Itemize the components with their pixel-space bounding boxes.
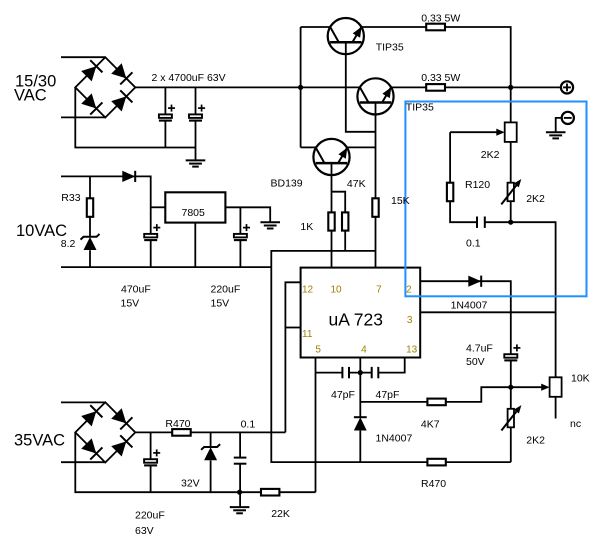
capacitor 220uF 15V	[234, 234, 247, 238]
wire	[510, 361, 512, 387]
svg-text:15V: 15V	[211, 298, 230, 310]
bridge rectifier B1	[75, 57, 135, 117]
ground	[230, 506, 250, 508]
wire	[331, 163, 333, 212]
wire	[61, 461, 105, 463]
svg-text:4.7uF: 4.7uF	[466, 343, 493, 355]
resistor 0.33 5W (top)	[426, 24, 445, 31]
potentiometer 10K	[550, 377, 562, 397]
svg-text:uA 723: uA 723	[329, 310, 384, 330]
wire	[361, 26, 426, 28]
wire	[210, 460, 212, 492]
svg-text:47K: 47K	[347, 178, 366, 190]
svg-text:13: 13	[406, 344, 418, 355]
svg-text:R33: R33	[61, 192, 80, 204]
svg-text:2 x 4700uF 63V: 2 x 4700uF 63V	[152, 72, 226, 84]
wire	[61, 401, 105, 403]
node selection box (blue)	[405, 102, 586, 297]
terminal - output	[562, 112, 574, 124]
wire	[450, 131, 498, 133]
wiper arrow	[496, 129, 504, 136]
wire	[195, 87, 197, 114]
svg-text:50V: 50V	[466, 356, 485, 368]
wire	[315, 358, 317, 493]
wire	[75, 432, 239, 492]
junction	[358, 370, 363, 375]
ground	[186, 159, 206, 161]
wire	[556, 118, 562, 132]
capacitor 47pF (left)	[341, 367, 343, 378]
svg-text:7: 7	[376, 285, 382, 296]
resistor 47K	[342, 212, 348, 230]
wire	[300, 27, 302, 147]
ground	[546, 131, 566, 133]
svg-text:10K: 10K	[571, 373, 590, 385]
wiper arrow	[541, 384, 549, 391]
wire	[378, 358, 404, 373]
potentiometer 2K2 (top)	[505, 122, 517, 141]
svg-text:470uF: 470uF	[121, 283, 151, 295]
trimmer 2K2 (right)	[508, 183, 514, 202]
wire	[360, 387, 511, 402]
junction	[508, 385, 513, 390]
wire	[61, 116, 105, 118]
resistor R120	[447, 183, 453, 202]
svg-text:15V: 15V	[121, 298, 140, 310]
wire	[359, 358, 361, 418]
wire	[485, 222, 556, 377]
svg-text:4: 4	[361, 344, 367, 355]
zener 32V	[201, 444, 220, 450]
wire	[332, 192, 346, 213]
wire	[510, 312, 512, 354]
wire	[61, 266, 271, 268]
capacitor 47pF (right)	[371, 367, 373, 378]
svg-text:12: 12	[302, 285, 314, 296]
svg-text:2: 2	[406, 284, 412, 295]
resistor 15K	[372, 198, 378, 217]
svg-text:VAC: VAC	[14, 87, 47, 105]
wire	[195, 121, 197, 160]
resistor R470 (bottom)	[427, 459, 445, 466]
wire	[555, 397, 557, 419]
IC U1 uA 723	[301, 268, 421, 358]
zener 8.2	[81, 234, 100, 240]
svg-text:7805: 7805	[182, 207, 206, 219]
svg-text:2K2: 2K2	[481, 149, 500, 161]
svg-text:15K: 15K	[391, 195, 410, 207]
transistor Q1 TIP35	[328, 18, 364, 54]
svg-text:2K2: 2K2	[526, 193, 545, 205]
svg-text:47pF: 47pF	[376, 389, 400, 401]
resistor R470 (35VAC rail)	[172, 429, 191, 436]
junction	[508, 85, 513, 90]
trimmer 2K2 (bottom)	[508, 409, 514, 428]
wire	[331, 231, 333, 268]
wire	[75, 87, 195, 147]
wire	[271, 251, 511, 462]
svg-text:63V: 63V	[135, 525, 154, 537]
wire	[240, 491, 316, 493]
svg-text:220uF: 220uF	[135, 510, 165, 522]
resistor 22K	[261, 489, 279, 496]
wire	[420, 311, 555, 313]
wire	[61, 56, 105, 58]
wire	[239, 432, 241, 457]
diode 1N4007 (pin 2)	[468, 276, 481, 287]
wire	[135, 86, 300, 88]
diode (10VAC feed)	[122, 171, 135, 182]
wire	[301, 26, 331, 28]
wire	[135, 431, 285, 433]
wire	[375, 217, 377, 268]
svg-text:3: 3	[407, 315, 413, 326]
svg-text:R120: R120	[465, 179, 490, 191]
wire	[89, 250, 91, 267]
wire	[346, 42, 376, 132]
wire	[164, 87, 166, 114]
wire	[510, 87, 512, 222]
wire	[344, 231, 346, 251]
terminal + output	[561, 81, 573, 93]
wire	[285, 327, 300, 329]
wire	[285, 282, 300, 432]
svg-text:1K: 1K	[300, 221, 313, 233]
wire	[150, 240, 152, 267]
svg-text:47pF: 47pF	[331, 389, 355, 401]
wire	[151, 206, 166, 208]
capacitor 220uF 63V	[144, 459, 157, 463]
wire	[316, 372, 343, 374]
wire	[450, 201, 477, 222]
svg-text:1N4007: 1N4007	[376, 432, 413, 444]
wire	[347, 146, 375, 148]
svg-text:22K: 22K	[271, 508, 290, 520]
junction	[508, 220, 513, 225]
svg-text:5: 5	[315, 344, 321, 355]
svg-text:nc: nc	[570, 418, 581, 430]
resistor 0.33 5W (second)	[426, 84, 445, 91]
svg-text:11: 11	[302, 329, 313, 340]
wire	[375, 103, 377, 199]
wire	[510, 387, 512, 462]
capacitor 0.1 (35V rail)	[234, 457, 247, 459]
wire	[164, 121, 166, 148]
wire	[239, 240, 241, 267]
wire	[150, 466, 152, 492]
svg-text:10VAC: 10VAC	[16, 222, 67, 240]
wire	[194, 223, 196, 268]
capacitor 470uF 15V	[144, 234, 157, 238]
svg-text:1N4007: 1N4007	[451, 299, 488, 311]
wire	[445, 86, 561, 88]
wire	[349, 372, 372, 374]
wire	[449, 132, 451, 183]
wire	[301, 86, 360, 88]
svg-text:32V: 32V	[181, 478, 200, 490]
wire	[89, 217, 91, 237]
resistor 1K	[328, 212, 334, 230]
svg-text:8.2: 8.2	[61, 238, 76, 250]
resistor R33	[87, 198, 93, 217]
svg-text:TIP35: TIP35	[376, 42, 404, 54]
diode 1N4007 (pin 4)	[354, 416, 367, 418]
wire	[61, 176, 151, 234]
capacitor 4.7uF 50V	[504, 354, 517, 358]
svg-text:TIP35: TIP35	[406, 102, 434, 114]
capacitor 4700uF 63V (second)	[189, 114, 202, 118]
junction	[298, 85, 303, 90]
wire	[210, 432, 212, 447]
wire	[511, 386, 544, 388]
svg-text:R470: R470	[165, 418, 190, 430]
transistor Q3 BD139	[313, 139, 349, 175]
wire	[420, 281, 511, 312]
svg-text:BD139: BD139	[271, 178, 303, 190]
wire	[239, 464, 241, 507]
svg-text:0.33 5W: 0.33 5W	[421, 72, 460, 84]
capacitor 4700uF 63V (first)	[159, 114, 172, 118]
svg-text:2K2: 2K2	[526, 435, 545, 447]
wire	[359, 431, 361, 463]
ground	[260, 221, 280, 223]
wire	[445, 27, 511, 87]
svg-text:4K7: 4K7	[421, 419, 440, 431]
svg-text:R470: R470	[421, 478, 446, 490]
capacitor 0.1 (compensation)	[476, 217, 478, 228]
svg-text:0.1: 0.1	[241, 419, 256, 431]
wire	[89, 176, 91, 198]
wire	[391, 86, 426, 88]
svg-text:0.1: 0.1	[466, 238, 481, 250]
wire	[301, 146, 316, 148]
regulator U2 7805	[165, 192, 225, 222]
bridge rectifier B2	[75, 402, 135, 462]
wire	[150, 432, 152, 459]
svg-text:35VAC: 35VAC	[14, 431, 65, 449]
svg-text:220uF: 220uF	[211, 283, 241, 295]
transistor Q2 TIP35	[357, 78, 393, 114]
svg-text:0.33 5W: 0.33 5W	[421, 12, 460, 24]
wire	[225, 207, 270, 222]
junction	[237, 490, 242, 495]
wire	[239, 207, 241, 234]
svg-text:10: 10	[331, 285, 343, 296]
resistor 4K7	[427, 399, 445, 406]
